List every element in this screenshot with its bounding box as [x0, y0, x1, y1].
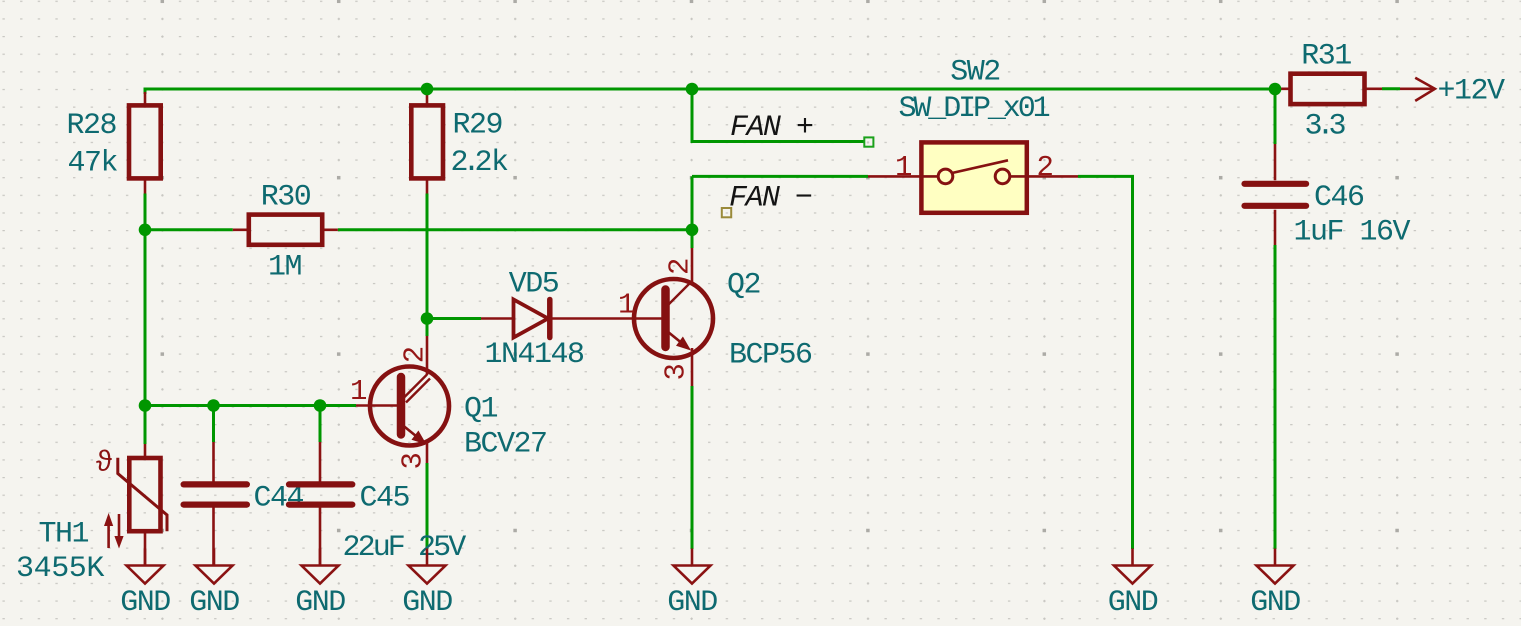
capacitor C46	[1245, 144, 1411, 250]
VD5 cathode bar	[547, 300, 553, 338]
+12V pin line	[1400, 88, 1435, 91]
svg-text:2.2k: 2.2k	[451, 146, 509, 180]
junction top R31/C46	[1269, 83, 1282, 96]
Q2 base pin	[635, 317, 662, 320]
wire Q1 emitter to GND	[426, 463, 429, 549]
Q2 collector line	[668, 281, 693, 306]
wire Q2 emitter to GND	[691, 386, 694, 549]
wire FAN+ branch	[692, 89, 864, 142]
svg-text:BCP56: BCP56	[729, 339, 812, 373]
R29 body	[411, 105, 443, 178]
R30 body	[249, 215, 322, 245]
switch SW2	[868, 56, 1078, 213]
capacitor C44	[184, 442, 304, 566]
TH1 body	[129, 458, 160, 531]
wire C44 top stub	[212, 406, 215, 443]
svg-text:GND: GND	[189, 586, 239, 620]
Q1 base pin	[356, 404, 397, 407]
wire node base-bias horizontal R30 left	[145, 228, 233, 231]
wire R31 right to power arrow	[1382, 87, 1400, 90]
svg-text:GND: GND	[667, 586, 717, 620]
ground GND (C45)	[295, 549, 345, 621]
svg-text:1: 1	[895, 151, 911, 184]
svg-text:2: 2	[1037, 151, 1053, 184]
svg-text:GND: GND	[1108, 586, 1158, 620]
svg-text:GND: GND	[402, 586, 452, 620]
junction R28/R30	[139, 224, 152, 237]
R28 body	[129, 105, 161, 178]
junction TH1 node	[139, 399, 152, 412]
svg-text:47k: 47k	[67, 147, 117, 181]
svg-text:TH1: TH1	[38, 518, 88, 552]
svg-text:+12V: +12V	[1438, 75, 1506, 109]
wire Q1 base net	[145, 404, 356, 407]
junction C45 node	[314, 399, 327, 412]
C45 plates	[289, 481, 352, 487]
svg-text:GND: GND	[295, 586, 345, 620]
wire top +12V rail	[145, 88, 1277, 91]
svg-text:1N4148: 1N4148	[484, 338, 584, 372]
wire R28 top stub	[144, 88, 147, 95]
svg-text:Q1: Q1	[464, 393, 498, 427]
junction C44 node	[207, 399, 220, 412]
R31 body	[1291, 74, 1365, 104]
svg-text:2: 2	[399, 347, 432, 363]
ground GND (Q2)	[667, 549, 717, 621]
wire SW2 pin2 to GND	[1078, 176, 1133, 549]
junction top FAN branch	[686, 83, 699, 96]
svg-text:Q2: Q2	[727, 269, 760, 303]
TH1 thermistor diagonal mark	[118, 458, 167, 532]
Q1 base bar	[397, 377, 406, 435]
wire R28 bottom to TH1 top	[144, 194, 147, 445]
C46 plates	[1245, 181, 1307, 187]
svg-text:R30: R30	[261, 181, 311, 215]
transistor Q2	[618, 248, 812, 386]
wire R30 right to Q2 collector node	[338, 228, 692, 231]
wire C45 top stub	[319, 406, 322, 443]
svg-text:GND: GND	[1250, 586, 1300, 620]
TH1 down arrow	[118, 514, 121, 540]
ground GND (C46)	[1250, 549, 1300, 621]
svg-text:FAN +: FAN +	[730, 111, 813, 145]
svg-text:R28: R28	[66, 109, 116, 143]
Q1 body circle	[370, 367, 449, 446]
SW2 body box	[921, 142, 1026, 212]
wire C46 top stub	[1274, 89, 1277, 144]
diode VD5	[481, 268, 635, 373]
svg-text:C45: C45	[360, 482, 410, 516]
wire C46 bottom to GND	[1274, 245, 1277, 549]
junction top R29	[421, 83, 434, 96]
junction VD5/R29	[421, 312, 434, 325]
svg-text:SW2: SW2	[950, 56, 1000, 90]
C44 plates	[184, 481, 247, 487]
resistor R29	[411, 91, 508, 194]
Q1 emitter with arrow	[403, 426, 424, 443]
ground GND (SW2)	[1108, 549, 1158, 621]
SW2 left contact circle	[938, 169, 953, 184]
label FAN+	[730, 111, 873, 147]
svg-text:3.3: 3.3	[1305, 110, 1346, 144]
svg-text:C46: C46	[1314, 181, 1364, 215]
svg-text:3: 3	[397, 453, 430, 469]
SW2 pin 2 lead	[1029, 175, 1078, 178]
SW2 lever	[952, 160, 1008, 173]
svg-text:1: 1	[618, 289, 634, 322]
svg-text:1M: 1M	[268, 251, 302, 285]
capacitor C45	[289, 442, 466, 566]
svg-text:SW_DIP_x01: SW_DIP_x01	[898, 92, 1049, 126]
VD5 anode triangle	[514, 300, 549, 338]
Q2 base bar	[661, 290, 670, 348]
SW2 pin 1 lead	[868, 175, 919, 178]
svg-text:R31: R31	[1301, 40, 1351, 74]
wire VD5 anode branch	[427, 317, 481, 320]
FAN- label anchor square	[722, 208, 731, 217]
power +12V	[1400, 75, 1505, 109]
svg-text:BCV27: BCV27	[464, 428, 547, 462]
wire FAN- horizontal	[692, 175, 868, 178]
svg-text:2: 2	[664, 259, 697, 275]
Q2 collector pin	[691, 248, 694, 284]
ground GND (TH1)	[120, 549, 170, 621]
resistor R31	[1277, 40, 1382, 144]
svg-text:ϑ: ϑ	[96, 447, 113, 480]
resistor R28	[66, 92, 160, 194]
svg-text:1: 1	[350, 375, 366, 408]
svg-text:GND: GND	[120, 586, 170, 620]
svg-text:1uF 16V: 1uF 16V	[1294, 216, 1411, 250]
svg-text:R29: R29	[453, 109, 503, 143]
Q2 body circle	[634, 279, 713, 358]
Q1 emitter pin	[426, 442, 429, 463]
svg-text:22uF 25V: 22uF 25V	[343, 531, 467, 565]
Q1 collector pin	[426, 336, 429, 375]
TH1 up arrow	[107, 522, 110, 548]
transistor Q1	[350, 336, 546, 469]
svg-text:3455K: 3455K	[16, 552, 104, 586]
svg-text:3: 3	[659, 364, 692, 380]
SW2 inner leads	[919, 175, 1029, 178]
junction R30/Q2 collector	[686, 224, 699, 237]
wire FAN- vertical to junction	[691, 176, 694, 248]
Q1 collector double line	[403, 375, 427, 399]
svg-text:FAN −: FAN −	[729, 182, 812, 216]
svg-text:VD5: VD5	[509, 268, 559, 302]
SW2 right contact circle	[995, 169, 1010, 184]
Q2 emitter pin	[691, 348, 694, 386]
ground GND (Q1)	[402, 549, 452, 621]
thermistor TH1	[16, 444, 167, 586]
Q2 emitter with arrow	[668, 332, 689, 349]
label FAN-	[722, 182, 812, 218]
ground GND (C44)	[189, 549, 239, 621]
FAN+ open wire-end square	[864, 137, 873, 146]
+12V arrow chevron	[1415, 78, 1435, 101]
wire R29 bottom to Q1 collector	[426, 194, 429, 337]
resistor R30	[233, 181, 338, 285]
